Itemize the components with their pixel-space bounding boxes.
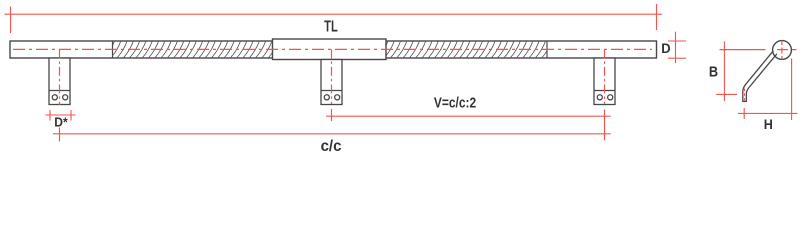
bracket right centreline <box>604 49 606 140</box>
dimension V=c/c:2 <box>326 115 611 117</box>
bracket left centreline <box>59 49 61 141</box>
side view: bracket foot centreline dashes <box>744 89 746 101</box>
hatching of grip section 1 <box>104 41 278 58</box>
side view: bracket profile inner line <box>746 54 777 102</box>
svg-text:D*: D* <box>54 115 68 129</box>
dimension D* (bracket width) <box>46 110 76 121</box>
centre sleeve (thicker middle section) <box>273 39 387 60</box>
side view: bracket bottom cap <box>742 100 747 102</box>
technical drawing: curtain rail front view with three wall brackets + side view <box>0 0 800 160</box>
bracket middle centreline <box>331 49 333 121</box>
side view: horizontal centreline <box>720 49 797 51</box>
hatching of grip section 2 <box>378 41 552 58</box>
bracket right (body) <box>594 58 615 105</box>
svg-text:TL: TL <box>324 18 338 35</box>
side view: bracket profile outer line <box>743 51 774 102</box>
knurled grip section 1 boundary <box>112 41 114 58</box>
bracket middle (body) <box>321 60 342 105</box>
rail bar outline <box>10 41 657 58</box>
svg-text:V=c/c:2: V=c/c:2 <box>434 94 477 111</box>
dimension TL: dimension line <box>5 4 663 33</box>
svg-text:c/c: c/c <box>321 138 342 155</box>
svg-text:H: H <box>764 116 773 132</box>
dimension TL: left extension line <box>10 7 12 34</box>
rail centreline (red dash-dot) <box>13 48 652 50</box>
dimension c/c <box>53 133 611 135</box>
svg-text:B: B <box>709 62 718 79</box>
dimension D (rail diameter, right end) <box>668 32 686 63</box>
svg-text:D: D <box>661 41 671 57</box>
dimension B <box>716 42 737 102</box>
side view: rail cross-section circle <box>773 41 792 60</box>
bracket left (body) <box>49 58 70 105</box>
knurled grip section 2 boundary <box>546 41 548 58</box>
dimension H <box>738 59 798 121</box>
side view: vertical centreline of circle <box>781 41 783 60</box>
dimension TL: right extension line <box>656 4 658 30</box>
